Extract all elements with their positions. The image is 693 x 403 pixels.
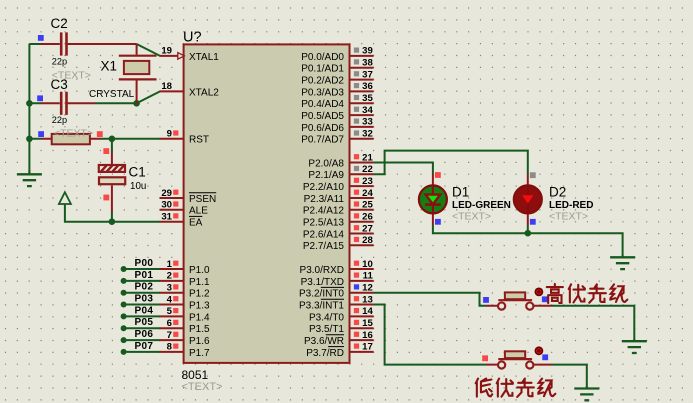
svg-text:P1.4: P1.4 xyxy=(189,312,210,323)
svg-text:LED-GREEN: LED-GREEN xyxy=(452,200,511,211)
svg-text:P3.3/INT1: P3.3/INT1 xyxy=(299,300,344,311)
svg-text:P3.5/T1: P3.5/T1 xyxy=(309,324,344,335)
svg-text:P1.5: P1.5 xyxy=(189,324,210,335)
svg-text:P3.6/WR: P3.6/WR xyxy=(304,336,344,347)
svg-text:P3.4/T0: P3.4/T0 xyxy=(309,312,344,323)
svg-text:P3.7/RD: P3.7/RD xyxy=(306,348,344,359)
svg-text:P1.3: P1.3 xyxy=(189,300,210,311)
svg-text:X1: X1 xyxy=(101,59,118,74)
svg-text:P0.3/AD3: P0.3/AD3 xyxy=(301,87,344,98)
svg-text:P1.1: P1.1 xyxy=(189,277,210,288)
svg-text:<TEXT>: <TEXT> xyxy=(182,381,223,393)
svg-text:CRYSTAL: CRYSTAL xyxy=(89,89,135,100)
svg-text:P2.7/A15: P2.7/A15 xyxy=(303,241,345,252)
svg-text:P3.0/RXD: P3.0/RXD xyxy=(300,265,344,276)
svg-text:P06: P06 xyxy=(135,329,154,340)
svg-text:P1.2: P1.2 xyxy=(189,289,210,300)
svg-text:P1.6: P1.6 xyxy=(189,336,210,347)
svg-text:10u: 10u xyxy=(130,181,146,192)
svg-text:ALE: ALE xyxy=(189,206,208,217)
svg-text:22p: 22p xyxy=(52,57,67,67)
svg-text:P3.1/TXD: P3.1/TXD xyxy=(301,277,344,288)
svg-text:P1.7: P1.7 xyxy=(189,348,210,359)
svg-text:C1: C1 xyxy=(129,165,146,180)
svg-text:P0.6/AD6: P0.6/AD6 xyxy=(301,123,344,134)
svg-text:P2.4/A12: P2.4/A12 xyxy=(303,206,345,217)
svg-text:EA: EA xyxy=(189,218,203,229)
svg-text:P2.3/A11: P2.3/A11 xyxy=(304,194,345,205)
svg-text:P00: P00 xyxy=(135,258,154,269)
svg-text:P3.2/INT0: P3.2/INT0 xyxy=(299,289,344,300)
svg-text:P2.1/A9: P2.1/A9 xyxy=(308,170,344,181)
svg-text:D1: D1 xyxy=(452,185,469,200)
svg-text:8051: 8051 xyxy=(182,368,209,382)
svg-text:U?: U? xyxy=(183,30,202,46)
svg-text:P2.6/A14: P2.6/A14 xyxy=(303,229,345,240)
svg-text:PSEN: PSEN xyxy=(189,194,216,205)
svg-text:P04: P04 xyxy=(135,305,154,316)
svg-text:P0.2/AD2: P0.2/AD2 xyxy=(301,76,344,87)
svg-text:P0.0/AD0: P0.0/AD0 xyxy=(301,52,344,63)
svg-text:P03: P03 xyxy=(135,294,154,305)
svg-text:P05: P05 xyxy=(135,317,154,328)
svg-text:XTAL2: XTAL2 xyxy=(189,87,219,98)
svg-text:P0.4/AD4: P0.4/AD4 xyxy=(301,99,344,110)
svg-text:P0.7/AD7: P0.7/AD7 xyxy=(301,135,344,146)
svg-text:P0.5/AD5: P0.5/AD5 xyxy=(301,111,344,122)
svg-text:XTAL1: XTAL1 xyxy=(189,52,219,63)
svg-text:P2.0/A8: P2.0/A8 xyxy=(308,158,344,169)
svg-text:P2.2/A10: P2.2/A10 xyxy=(303,182,345,193)
svg-text:P2.5/A13: P2.5/A13 xyxy=(303,218,345,229)
svg-text:P02: P02 xyxy=(135,282,154,293)
svg-text:<TEXT>: <TEXT> xyxy=(452,211,491,223)
svg-text:C3: C3 xyxy=(51,77,68,92)
svg-text:<TEXT>: <TEXT> xyxy=(549,211,588,223)
svg-text:D2: D2 xyxy=(549,185,566,200)
svg-text:P07: P07 xyxy=(135,341,154,352)
svg-text:22p: 22p xyxy=(52,115,67,125)
svg-text:P0.1/AD1: P0.1/AD1 xyxy=(301,64,344,75)
svg-text:<TEXT>: <TEXT> xyxy=(54,128,93,140)
svg-text:P01: P01 xyxy=(135,270,154,281)
svg-text:LED-RED: LED-RED xyxy=(549,200,593,211)
svg-text:C2: C2 xyxy=(51,16,68,31)
svg-text:RST: RST xyxy=(189,135,209,146)
svg-text:P1.0: P1.0 xyxy=(189,265,210,276)
